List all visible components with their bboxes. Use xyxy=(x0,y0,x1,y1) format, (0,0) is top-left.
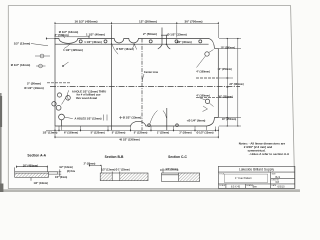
right dimension chain 1 xyxy=(226,39,228,127)
Section B-B xyxy=(89,164,148,181)
svg-text:1/2" (13mm): 1/2" (13mm) xyxy=(34,181,49,185)
svg-text:Section B-B: Section B-B xyxy=(105,155,124,159)
svg-text:6" (150mm): 6" (150mm) xyxy=(64,131,78,135)
svg-text:1 1/2" (40mm): 1 1/2" (40mm) xyxy=(84,40,102,44)
svg-text:12" (300mm): 12" (300mm) xyxy=(139,20,157,24)
bottom dimension row 2 xyxy=(55,136,218,138)
horizontal center line xyxy=(50,86,240,88)
Title block xyxy=(218,166,295,188)
hole row line left xyxy=(47,82,70,84)
svg-text:10" (250mm): 10" (250mm) xyxy=(221,46,235,49)
svg-text:24" (600mm): 24" (600mm) xyxy=(229,83,243,86)
leader dia label left xyxy=(63,34,65,38)
svg-text:5" (125mm): 5" (125mm) xyxy=(134,132,148,135)
right extension lines xyxy=(219,39,241,127)
scan edge shading bottom xyxy=(0,189,300,192)
board outline with top scallop notches and corner recesses xyxy=(55,39,218,127)
svg-text:A HOLES 1/2" (13mm): A HOLES 1/2" (13mm) xyxy=(75,117,102,121)
svg-text:4" (100mm): 4" (100mm) xyxy=(196,70,210,73)
Section C-C xyxy=(161,168,200,181)
A holes note bracket xyxy=(68,90,69,100)
dimension arrowhead dots xyxy=(16,23,238,171)
svg-text:1 1/2" (420mm): 1 1/2" (420mm) xyxy=(63,48,83,52)
Section A-A xyxy=(15,166,62,181)
svg-text:1/2" (13mm) Ø 1" (25mm): 1/2" (13mm) Ø 1" (25mm) xyxy=(101,169,130,172)
svg-text:+Ø 1/4" (6mm): +Ø 1/4" (6mm) xyxy=(187,119,206,123)
cue tip circle D4 xyxy=(175,40,178,43)
cue tip circle D3 xyxy=(149,40,152,43)
datum circles left margin xyxy=(40,54,44,58)
cue tip circle D1 xyxy=(79,40,82,43)
svg-text:Section A-A: Section A-A xyxy=(27,154,46,158)
svg-text:Ø 1/2" (13mm): Ø 1/2" (13mm) xyxy=(197,132,214,135)
svg-text:5" (125mm): 5" (125mm) xyxy=(91,131,105,135)
hole row line right lower xyxy=(196,97,218,99)
bottom edge small hole 1 xyxy=(148,124,151,127)
bottom dimension row 1 xyxy=(46,129,218,131)
svg-text:1/2" (13mm): 1/2" (13mm) xyxy=(14,42,31,46)
sheet border frame xyxy=(8,6,294,189)
B hole leaders right xyxy=(209,50,214,107)
right dimension chain 2 xyxy=(237,39,239,127)
bottom edge small hole 2 xyxy=(176,124,179,127)
scan edge shading left xyxy=(0,93,2,192)
leader dot xyxy=(62,65,64,67)
svg-text:Center Line: Center Line xyxy=(144,70,159,74)
hole row line right upper xyxy=(196,77,218,79)
svg-text:Section C-C: Section C-C xyxy=(168,155,187,159)
svg-text:1/2" (13mm): 1/2" (13mm) xyxy=(43,131,58,135)
svg-text:16 1/2" (420mm): 16 1/2" (420mm) xyxy=(75,20,98,24)
svg-text:(2) thru: (2) thru xyxy=(67,170,76,173)
svg-text:2" (50mm): 2" (50mm) xyxy=(143,32,157,36)
svg-text:DATE: DATE xyxy=(272,184,277,187)
svg-text:1 1/2" (40mm): 1 1/2" (40mm) xyxy=(86,33,105,37)
right hole B lower xyxy=(205,99,209,103)
paper background xyxy=(0,0,300,192)
svg-text:Ben: Ben xyxy=(253,186,258,189)
right hole B upper xyxy=(205,52,209,56)
left hole pair xyxy=(57,93,61,97)
svg-text:30" (750mm): 30" (750mm) xyxy=(185,20,203,24)
svg-text:Ø 1/2" (13mm): Ø 1/2" (13mm) xyxy=(24,86,44,90)
svg-text:8.5 X 45: 8.5 X 45 xyxy=(231,186,241,189)
leaders text to B holes xyxy=(197,56,206,100)
svg-text:16" (400mm): 16" (400mm) xyxy=(23,163,38,167)
cue tip circle D5 xyxy=(199,40,202,43)
svg-text:10" (250mm): 10" (250mm) xyxy=(222,118,236,121)
svg-text:2" (50mm): 2" (50mm) xyxy=(179,132,191,135)
svg-text:Lakeside Billiard Supply: Lakeside Billiard Supply xyxy=(239,167,274,171)
cue tip circle D2 xyxy=(104,40,107,43)
svg-text:10" (250mm): 10" (250mm) xyxy=(218,68,232,71)
section tick marks xyxy=(104,115,108,121)
svg-text:1/4" (6mm): 1/4" (6mm) xyxy=(55,176,67,179)
svg-text:2" (50mm): 2" (50mm) xyxy=(84,163,96,166)
svg-text:Ø 1/2" (13mm): Ø 1/2" (13mm) xyxy=(11,63,31,67)
vertical extension upper mid xyxy=(158,28,162,50)
svg-text:Ø 1/2" (13mm): Ø 1/2" (13mm) xyxy=(167,32,187,36)
svg-text:6/3/10: 6/3/10 xyxy=(278,186,286,189)
B holes leader xyxy=(62,96,67,105)
vertical cut line left xyxy=(111,25,113,130)
svg-text:1" (25mm): 1" (25mm) xyxy=(157,132,169,135)
svg-text:TITLE: TITLE xyxy=(219,173,225,175)
hole A circle with stem xyxy=(59,114,65,120)
svg-text:46 1/2" (1200mm): 46 1/2" (1200mm) xyxy=(119,139,140,142)
left hole B xyxy=(52,102,56,106)
A holes leader 2 xyxy=(65,117,73,118)
svg-text:SCALE: SCALE xyxy=(219,184,226,187)
top rail inner line xyxy=(55,43,209,45)
svg-text:2" (50mm): 2" (50mm) xyxy=(54,33,68,37)
svg-text:thru wood dowel: thru wood dowel xyxy=(76,96,98,100)
left edge extension xyxy=(31,37,55,46)
center line label leader xyxy=(142,74,144,82)
notch leader arrows 1 xyxy=(112,44,118,54)
z-leader xyxy=(203,106,208,112)
svg-text:1" Cue Pattern: 1" Cue Pattern xyxy=(235,176,252,180)
s-leader to small hole xyxy=(150,111,158,124)
vertical center line xyxy=(141,39,143,131)
Notes xyxy=(239,142,290,157)
svg-text:1/2" (40mm): 1/2" (40mm) xyxy=(176,40,191,44)
row2 dimension line left xyxy=(55,36,89,39)
svg-text:2" (50mm): 2" (50mm) xyxy=(27,81,41,85)
svg-text:Ø 1/2" (13mm): Ø 1/2" (13mm) xyxy=(123,115,142,119)
svg-text:4" (100mm): 4" (100mm) xyxy=(196,94,210,97)
right chain texts xyxy=(218,46,244,121)
svg-text:5" (125mm): 5" (125mm) xyxy=(112,132,126,135)
vertical extension lower mid xyxy=(166,108,168,130)
svg-text:B+S: B+S xyxy=(276,176,281,179)
svg-text:- Holes A refer to section A-A: - Holes A refer to section A-A xyxy=(249,152,290,156)
svg-text:R 5/8" (16mm): R 5/8" (16mm) xyxy=(116,47,134,51)
svg-text:10" (250mm): 10" (250mm) xyxy=(218,95,232,98)
svg-text:1/4" (6mm): 1/4" (6mm) xyxy=(165,168,177,171)
curly leader top-left xyxy=(64,45,70,49)
top dimension line xyxy=(55,22,218,24)
center cross mark xyxy=(119,116,122,119)
svg-text:A HOLE 1/2" (13mm) THRU: A HOLE 1/2" (13mm) THRU xyxy=(72,89,106,93)
svg-text:1/2" (13mm): 1/2" (13mm) xyxy=(59,166,73,169)
